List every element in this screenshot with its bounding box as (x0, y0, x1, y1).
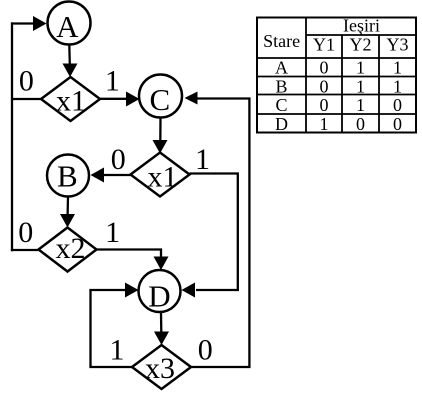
svg-text:C: C (275, 95, 287, 115)
table outer border (257, 18, 416, 133)
svg-text:1: 1 (393, 76, 402, 96)
decision x1 (first) (41, 77, 100, 121)
wire B to x2 (66, 197, 69, 216)
svg-text:0: 0 (356, 114, 365, 134)
wire x1 to C (100, 98, 127, 100)
svg-text:A: A (275, 58, 288, 78)
svg-text:1: 1 (105, 65, 120, 98)
svg-text:x1: x1 (56, 85, 86, 118)
wire x2 to rail (11, 249, 39, 251)
table row line under A (257, 76, 416, 78)
svg-text:1: 1 (110, 334, 125, 367)
table row line under header (257, 57, 416, 59)
wire A to x1 (68, 45, 71, 65)
svg-text:1: 1 (320, 114, 329, 134)
svg-text:0: 0 (393, 95, 402, 115)
svg-text:Stare: Stare (263, 31, 300, 51)
svg-text:x3: x3 (145, 352, 175, 385)
svg-text:0: 0 (198, 334, 213, 367)
svg-text:1: 1 (195, 143, 210, 176)
svg-text:0: 0 (320, 76, 329, 96)
table row line under B (257, 94, 416, 96)
decision x3 (132, 345, 191, 389)
wire x3 to D (left loop) (91, 290, 133, 367)
svg-text:x2: x2 (56, 232, 86, 265)
svg-text:0: 0 (111, 143, 126, 176)
svg-text:1: 1 (356, 95, 365, 115)
svg-text:0: 0 (19, 65, 34, 98)
table row line under Iesiri (306, 34, 416, 36)
svg-text:C: C (150, 82, 171, 117)
svg-text:A: A (56, 9, 79, 44)
svg-text:x1: x1 (148, 160, 178, 193)
svg-text:Y3: Y3 (387, 35, 409, 55)
wire x1 to rail (12, 98, 41, 100)
svg-text:0: 0 (18, 216, 33, 249)
table row line under C (257, 113, 416, 115)
wire x2 to D (97, 250, 162, 259)
table column line Y2/Y3 (378, 35, 380, 133)
svg-text:1: 1 (393, 58, 402, 78)
svg-text:0: 0 (320, 95, 329, 115)
decision x2 (39, 228, 97, 272)
state A (48, 2, 91, 45)
svg-text:D: D (275, 114, 288, 134)
state C (139, 75, 182, 118)
wire x1 second to B (103, 174, 131, 176)
wire x3 to C (right loop) (191, 99, 249, 368)
table column line Stare (305, 18, 307, 133)
svg-text:Y1: Y1 (313, 35, 335, 55)
wire D to x3 (160, 312, 163, 333)
wire x1 second to D (right loop) (190, 174, 238, 291)
wire rail to A (11, 22, 36, 24)
svg-text:1: 1 (356, 58, 365, 78)
svg-text:0: 0 (320, 58, 329, 78)
svg-text:D: D (148, 278, 170, 313)
decision x1 (second) (131, 153, 190, 197)
wire C to x1 second (159, 118, 161, 143)
state B (47, 155, 89, 197)
svg-text:B: B (57, 159, 78, 194)
svg-text:1: 1 (356, 76, 365, 96)
svg-text:0: 0 (393, 114, 402, 134)
table column line Y1/Y2 (341, 35, 343, 133)
svg-text:Y2: Y2 (350, 35, 372, 55)
left rail wire (11, 22, 13, 251)
state D (139, 270, 181, 312)
svg-text:B: B (275, 76, 287, 96)
svg-text:1: 1 (105, 216, 120, 249)
svg-text:Ieşiri: Ieşiri (343, 16, 380, 36)
